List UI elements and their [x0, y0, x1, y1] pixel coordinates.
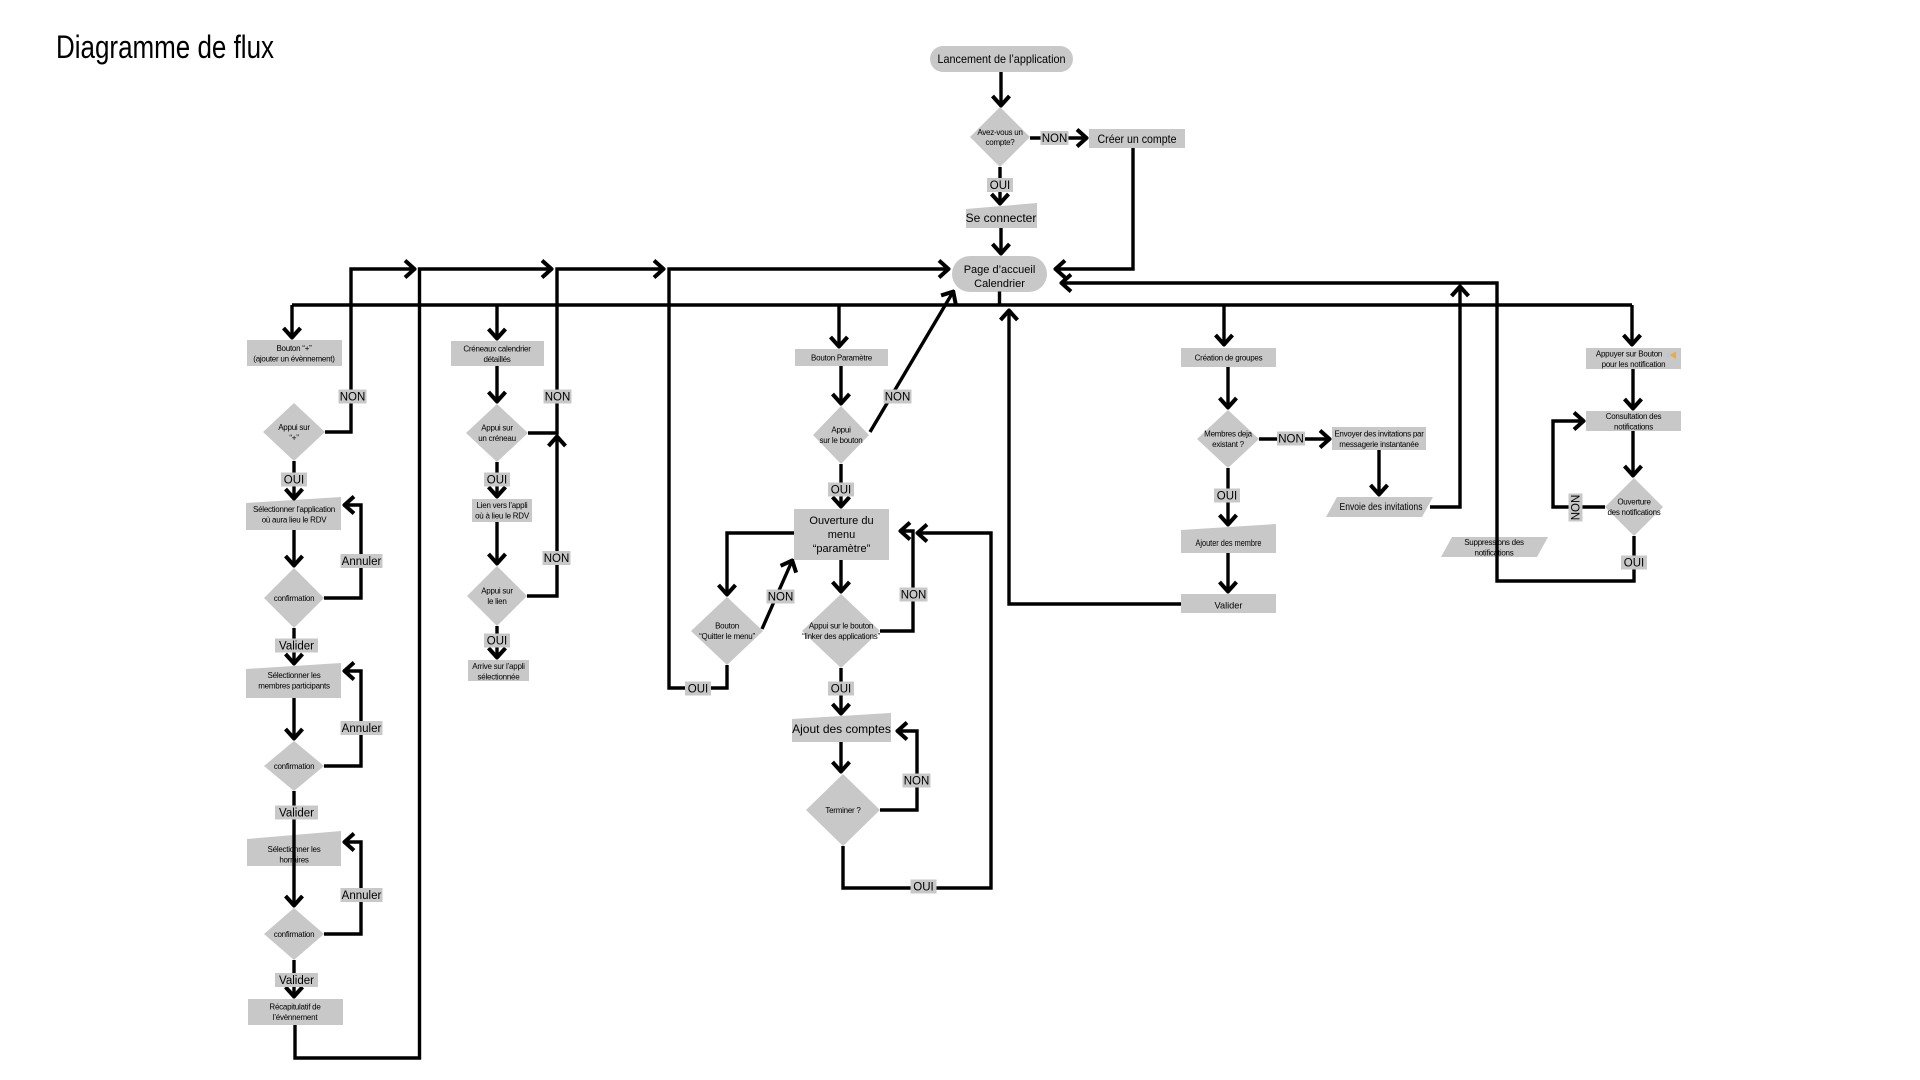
svg-text:Envoie des invitations: Envoie des invitations	[1340, 502, 1423, 513]
svg-text:OUI: OUI	[487, 475, 507, 487]
svg-text:messagerie instantanée: messagerie instantanée	[1339, 440, 1419, 449]
svg-text:Annuler: Annuler	[342, 556, 382, 568]
svg-text:Sélectionner l’application: Sélectionner l’application	[253, 505, 335, 514]
svg-text:existant ?: existant ?	[1212, 440, 1245, 449]
svg-text:Ajout des comptes: Ajout des comptes	[792, 722, 891, 736]
svg-text:OUI: OUI	[990, 180, 1010, 192]
svg-text:Valider: Valider	[279, 808, 314, 820]
svg-text:horraires: horraires	[279, 856, 309, 865]
svg-text:Diagramme de flux: Diagramme de flux	[56, 29, 274, 65]
svg-text:Appui: Appui	[831, 426, 851, 435]
svg-text:confirmation: confirmation	[274, 762, 315, 771]
svg-text:OUI: OUI	[831, 684, 851, 696]
svg-text:Appui sur: Appui sur	[481, 424, 513, 433]
svg-text:NON: NON	[1042, 133, 1068, 145]
svg-text:membres participants: membres participants	[258, 682, 330, 691]
svg-text:Bouton “+”: Bouton “+”	[276, 344, 312, 353]
svg-text:le lien: le lien	[487, 597, 506, 606]
svg-text:“paramètre”: “paramètre”	[813, 543, 871, 555]
svg-text:Membres deja: Membres deja	[1204, 430, 1252, 439]
svg-text:NON: NON	[901, 590, 927, 602]
svg-text:Ouverture du: Ouverture du	[809, 515, 873, 527]
svg-text:“+”: “+”	[289, 434, 299, 443]
svg-text:Créneaux calendrier: Créneaux calendrier	[463, 345, 531, 354]
svg-text:Sélectionner les: Sélectionner les	[268, 845, 321, 854]
svg-text:Envoyer des invitations par: Envoyer des invitations par	[1334, 430, 1424, 439]
svg-text:Appui sur: Appui sur	[278, 423, 310, 432]
svg-text:pour les notification: pour les notification	[1602, 360, 1666, 369]
svg-text:Appui sur: Appui sur	[481, 587, 513, 596]
svg-text:Consultation des: Consultation des	[1606, 412, 1662, 421]
svg-text:Annuler: Annuler	[342, 890, 382, 902]
svg-text:Avez-vous un: Avez-vous un	[977, 128, 1022, 137]
svg-text:détaillés: détaillés	[483, 355, 510, 364]
svg-text:l’évènnement: l’évènnement	[273, 1013, 319, 1022]
svg-text:où aura lieu le RDV: où aura lieu le RDV	[262, 516, 328, 525]
svg-text:Bouton Paramètre: Bouton Paramètre	[811, 354, 873, 363]
svg-text:Appui sur le bouton: Appui sur le bouton	[809, 622, 873, 631]
svg-text:Bouton: Bouton	[715, 622, 739, 631]
svg-text:“Quitter le menu”: “Quitter le menu”	[699, 632, 755, 641]
svg-text:des notifications: des notifications	[1607, 508, 1660, 517]
svg-text:sur le bouton: sur le bouton	[819, 436, 862, 445]
svg-text:où à lieu le RDV: où à lieu le RDV	[475, 512, 530, 521]
svg-text:Appuyer sur Bouton: Appuyer sur Bouton	[1596, 350, 1662, 359]
svg-text:OUI: OUI	[913, 882, 933, 894]
svg-text:confirmation: confirmation	[274, 930, 315, 939]
svg-text:Suppressions des: Suppressions des	[1464, 538, 1524, 547]
svg-text:un créneau: un créneau	[478, 434, 516, 443]
svg-text:Valider: Valider	[279, 641, 314, 653]
svg-text:NON: NON	[545, 392, 571, 404]
svg-text:NON: NON	[1571, 495, 1583, 521]
svg-text:Arrive sur l’appli: Arrive sur l’appli	[472, 662, 525, 671]
svg-text:Lancement de l’application: Lancement de l’application	[938, 52, 1066, 66]
svg-text:OUI: OUI	[688, 684, 708, 696]
svg-text:OUI: OUI	[284, 475, 304, 487]
svg-text:Page d’accueil: Page d’accueil	[964, 264, 1036, 276]
svg-text:NON: NON	[1278, 434, 1304, 446]
svg-text:Lien vers l’appli: Lien vers l’appli	[477, 501, 528, 510]
svg-text:NON: NON	[544, 553, 570, 565]
svg-text:OUI: OUI	[831, 485, 851, 497]
svg-text:Ajouter des membre: Ajouter des membre	[1196, 538, 1262, 549]
svg-text:confirmation: confirmation	[274, 594, 315, 603]
svg-text:Terminer ?: Terminer ?	[825, 806, 861, 815]
svg-text:OUI: OUI	[487, 636, 507, 648]
svg-text:notifications: notifications	[1475, 549, 1514, 558]
svg-text:compte?: compte?	[986, 138, 1016, 147]
svg-text:sélectionnée: sélectionnée	[478, 673, 521, 682]
svg-text:NON: NON	[340, 392, 366, 404]
svg-text:NON: NON	[768, 592, 794, 604]
svg-text:Création de groupes: Création de groupes	[1195, 354, 1263, 363]
svg-text:OUI: OUI	[1217, 491, 1237, 503]
svg-text:NON: NON	[885, 392, 911, 404]
svg-text:“linker des applications”: “linker des applications”	[802, 632, 880, 641]
svg-text:Valider: Valider	[1215, 601, 1243, 612]
svg-text:Annuler: Annuler	[342, 723, 382, 735]
svg-text:Créer un compte: Créer un compte	[1098, 132, 1177, 146]
svg-text:Sélectionner les: Sélectionner les	[268, 671, 321, 680]
svg-text:menu: menu	[828, 529, 856, 541]
svg-text:Valider: Valider	[279, 975, 314, 987]
svg-text:NON: NON	[904, 776, 930, 788]
svg-text:OUI: OUI	[1624, 558, 1644, 570]
svg-text:Récapitulatif de: Récapitulatif de	[269, 1003, 321, 1012]
svg-text:Calendrier: Calendrier	[974, 278, 1025, 290]
svg-text:Ouverture: Ouverture	[1617, 498, 1651, 507]
svg-text:(ajouter un évènnement): (ajouter un évènnement)	[253, 355, 335, 364]
svg-text:notifications: notifications	[1614, 423, 1653, 432]
svg-text:Se connecter: Se connecter	[966, 211, 1037, 225]
